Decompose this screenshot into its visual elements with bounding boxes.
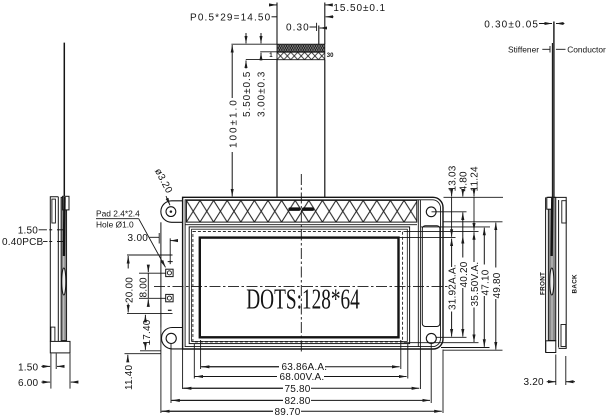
hatched seal band	[186, 200, 416, 222]
label Pad 2.4*2.4 / Hole Ø1.0 leader	[96, 208, 166, 267]
svg-text:Pad 2.4*2.4: Pad 2.4*2.4	[96, 208, 140, 218]
dimension 82.80	[171, 396, 430, 407]
hole bottom-left	[166, 333, 176, 343]
label Conductor	[556, 45, 606, 55]
svg-text:BACK: BACK	[571, 274, 578, 294]
dimension 3.20	[524, 377, 576, 388]
dimension 40.20	[459, 218, 470, 337]
svg-text:1.50: 1.50	[18, 362, 39, 373]
svg-text:Conductor: Conductor	[567, 45, 606, 55]
dimension 6.00	[18, 378, 76, 389]
extension line VA top right	[404, 230, 479, 232]
svg-text:6.00: 6.00	[18, 378, 39, 389]
dimension 1.50 bottom	[18, 362, 62, 373]
backlight pad 2	[166, 294, 173, 301]
dimension 0.40PCB	[2, 237, 65, 248]
svg-text:0.40PCB: 0.40PCB	[2, 237, 44, 248]
hole bottom-right	[426, 333, 436, 343]
extension line VA bottom right	[404, 342, 479, 344]
right side view FPC tail conductor	[553, 22, 555, 198]
dimension 35.50V.A.	[470, 232, 481, 342]
active area thick rectangle A.A.	[200, 238, 399, 338]
dimension 15.50±0.1	[269, 3, 385, 14]
right side view bezel front line	[545, 197, 547, 352]
left side view PCB outline	[50, 197, 58, 342]
svg-text:8.00: 8.00	[139, 277, 150, 298]
extension line body bottom left b	[125, 353, 161, 355]
centering mark on seal band	[288, 207, 314, 211]
extension line connector top	[231, 43, 277, 45]
left side view glass highlight	[63, 198, 65, 340]
svg-text:47.10: 47.10	[480, 269, 491, 295]
extension line connector bottom	[246, 59, 277, 61]
svg-text:FRONT: FRONT	[540, 272, 547, 295]
extension line minus mark level	[127, 313, 173, 315]
extension line body top right	[444, 196, 504, 198]
svg-text:89.70: 89.70	[275, 407, 301, 418]
extension line AA top right	[400, 237, 456, 239]
svg-text:Hole Ø1.0: Hole Ø1.0	[96, 220, 134, 230]
left side view top flap	[63, 196, 69, 210]
dimension 3.00 (pad offset)	[128, 233, 177, 259]
dimension 17.40	[142, 315, 153, 350]
svg-text:P0.5*29=14.50: P0.5*29=14.50	[190, 13, 271, 24]
dimension 1.50 top (gap)	[18, 226, 65, 237]
svg-text:82.80: 82.80	[285, 396, 311, 407]
extension line frame top right	[421, 226, 490, 228]
FPC connector pin bar	[277, 44, 325, 52]
dimension 100±1.0	[229, 45, 240, 196]
svg-text:0.30: 0.30	[286, 23, 309, 34]
svg-text:31.92A.A.: 31.92A.A.	[448, 264, 459, 310]
hole top-left	[166, 207, 176, 217]
svg-text:11.24: 11.24	[470, 166, 481, 192]
left side view FPC tail	[63, 43, 65, 196]
extension line plus mark level	[127, 254, 173, 256]
extension line pins bottom	[260, 51, 277, 53]
frame line below seal band	[185, 224, 417, 226]
dimension 11.40	[124, 355, 135, 390]
svg-text:15.50±0.1: 15.50±0.1	[333, 3, 385, 14]
svg-text:30: 30	[327, 53, 334, 59]
right side view lens mark	[550, 268, 554, 295]
extension line panel bottom right	[437, 336, 467, 338]
right side view top flap	[547, 197, 552, 209]
FPC cable left edge	[276, 60, 278, 198]
extension line body right bottom	[442, 350, 444, 414]
dimension 89.70	[161, 407, 442, 418]
label Stiffener	[508, 45, 550, 55]
left side view bottom stiffener	[51, 327, 55, 351]
right side view PCB outline	[547, 197, 566, 348]
extension line body outer bottom right	[444, 349, 503, 351]
FPC connector stiffener hatch bar	[277, 52, 325, 60]
dimension 13.03	[447, 165, 458, 237]
svg-text:3.00±0.3: 3.00±0.3	[256, 71, 267, 117]
dimension 11.24	[470, 166, 481, 231]
svg-text:68.00V.A.: 68.00V.A.	[280, 372, 325, 383]
svg-text:DOTS:128*64: DOTS:128*64	[246, 284, 360, 315]
bezel opening frame inner	[192, 229, 408, 341]
left side view glass bar	[61, 197, 67, 340]
plus polarity mark	[168, 259, 173, 264]
svg-text:40.20: 40.20	[459, 261, 470, 287]
extension lines left side bottom	[51, 354, 70, 389]
dimension 75.80	[183, 384, 419, 395]
vertical centerline	[300, 174, 302, 354]
dimension 20.00	[124, 256, 135, 312]
dimension 3.00±0.3	[256, 33, 267, 117]
extension line VA left bottom	[193, 344, 195, 379]
extension lines 3.20	[556, 355, 566, 386]
right side view top stiffener	[562, 201, 566, 223]
extension line body bottom left a	[140, 350, 161, 352]
label Ø3.20 hole diameter	[152, 167, 174, 206]
extension line body inner bottom right	[441, 347, 490, 349]
svg-text:75.80: 75.80	[285, 384, 311, 395]
extension line connector right	[324, 3, 326, 45]
svg-text:5.50±0.5: 5.50±0.5	[242, 71, 253, 117]
extension line pad2 center	[139, 297, 166, 299]
right side view FPC stiffener bar	[551, 43, 553, 197]
top-left mounting ear	[161, 201, 183, 223]
module body inner outline (bezel edge)	[185, 200, 440, 347]
horizontal centerline	[154, 286, 450, 288]
left side view FPC fold dark	[63, 197, 66, 256]
dimension 49.80	[492, 223, 503, 350]
dimension 68.00V.A.	[195, 372, 407, 383]
extension line pad1 center	[139, 272, 166, 274]
left side view bottom foot	[50, 341, 70, 353]
right side view glass bar	[548, 197, 556, 340]
FPC cable right edge	[324, 60, 326, 198]
extension line body left bottom	[182, 349, 184, 389]
dimension P0.5*29=14.50	[190, 13, 334, 24]
right side view FPC fold dark	[550, 198, 553, 256]
svg-text:49.80: 49.80	[492, 272, 503, 298]
dimension 0.30 (pin width)	[286, 23, 327, 44]
right PCB sub-panel	[422, 226, 440, 327]
viewing area dashed rectangle V.A.	[193, 231, 403, 342]
right side view glass highlight	[551, 198, 553, 340]
minus polarity mark	[168, 309, 172, 311]
bezel separator double line right	[418, 200, 420, 347]
dimension 47.10	[480, 228, 491, 347]
dimension 4.80	[458, 171, 469, 218]
dimension 31.92A.A.	[448, 239, 459, 337]
extension line strip left bottom	[160, 328, 162, 414]
svg-text:20.00: 20.00	[124, 277, 135, 303]
left side view top stiffener	[52, 199, 56, 223]
extension line hatch bottom right	[444, 221, 503, 223]
dimension 63.86A.A.	[201, 362, 400, 373]
right side view bottom stiffener	[561, 325, 566, 347]
extension line hole BR center bottom	[430, 343, 432, 403]
hole top-right	[426, 207, 436, 217]
extension line AA left bottom	[200, 340, 202, 369]
left side view lens mark	[62, 268, 66, 295]
svg-text:3.20: 3.20	[524, 377, 545, 388]
module body outer outline	[183, 197, 443, 349]
right side view bottom foot	[546, 341, 556, 353]
extension line AA right bottom	[400, 340, 402, 369]
svg-text:0.30±0.05: 0.30±0.05	[484, 19, 538, 30]
bezel opening frame outer	[189, 227, 409, 344]
svg-text:1.50: 1.50	[18, 226, 39, 237]
extension line separator bottom	[419, 347, 421, 389]
dimension 5.50±0.5	[242, 33, 253, 117]
extension line hole TR center	[432, 211, 467, 213]
svg-text:13.03: 13.03	[447, 165, 458, 191]
extension line VA right bottom	[407, 344, 409, 379]
svg-text:3.00: 3.00	[128, 233, 149, 244]
svg-text:17.40: 17.40	[142, 319, 153, 345]
bottom-left mounting ear	[162, 328, 183, 349]
backlight pad 1	[166, 269, 173, 276]
left pad strip edge	[160, 222, 162, 327]
extension line hole BL center bottom	[170, 343, 172, 403]
dimension 0.30±0.05	[484, 19, 564, 30]
svg-text:4.80: 4.80	[458, 171, 469, 192]
extension line connector left	[276, 3, 278, 45]
dimension 8.00	[139, 266, 150, 307]
svg-text:Stiffener: Stiffener	[508, 45, 539, 55]
svg-text:11.40: 11.40	[124, 364, 135, 390]
